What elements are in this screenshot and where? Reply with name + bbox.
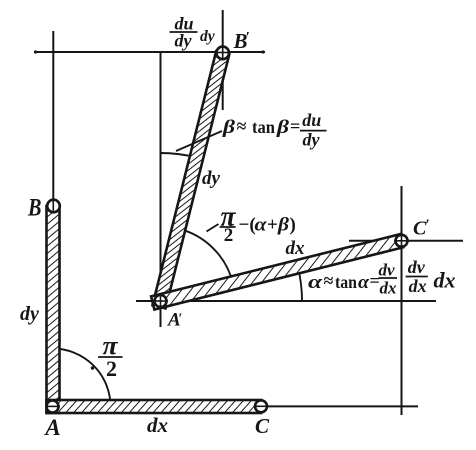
svg-text:2: 2	[106, 356, 117, 381]
svg-text:≈: ≈	[324, 271, 334, 291]
svg-text:dv: dv	[408, 257, 426, 277]
svg-text:≈: ≈	[237, 116, 247, 136]
svg-text:dy: dy	[200, 28, 215, 45]
svg-text:2: 2	[224, 225, 234, 246]
svg-text:tan: tan	[252, 117, 275, 137]
svg-text:du: du	[302, 110, 321, 130]
svg-text:β: β	[276, 117, 290, 138]
svg-text:α: α	[255, 215, 268, 236]
svg-text:α: α	[358, 272, 370, 293]
svg-text:−(: −(	[239, 215, 256, 236]
svg-text:β: β	[222, 117, 236, 138]
svg-text:B′: B′	[233, 29, 250, 53]
svg-text:dy: dy	[202, 168, 221, 189]
svg-text:α: α	[308, 272, 323, 293]
svg-text:dx: dx	[147, 413, 168, 437]
svg-text:): )	[290, 215, 296, 236]
svg-text:C: C	[255, 414, 270, 438]
svg-text:A′: A′	[167, 310, 182, 331]
svg-text:β: β	[277, 215, 289, 236]
svg-text:dy: dy	[20, 303, 39, 325]
svg-text:dy: dy	[303, 130, 321, 150]
svg-text:dv: dv	[378, 261, 395, 280]
svg-text:=: =	[290, 116, 300, 136]
svg-text:B: B	[27, 195, 41, 222]
svg-text:C′: C′	[413, 217, 430, 240]
svg-text:dx: dx	[380, 279, 398, 298]
svg-text:dx: dx	[434, 268, 456, 293]
svg-text:dy: dy	[175, 31, 193, 51]
svg-text:A: A	[43, 415, 60, 440]
svg-text:+: +	[267, 215, 278, 236]
svg-text:tan: tan	[335, 272, 357, 292]
svg-text:dx: dx	[409, 276, 427, 296]
svg-text:dx: dx	[286, 238, 306, 259]
